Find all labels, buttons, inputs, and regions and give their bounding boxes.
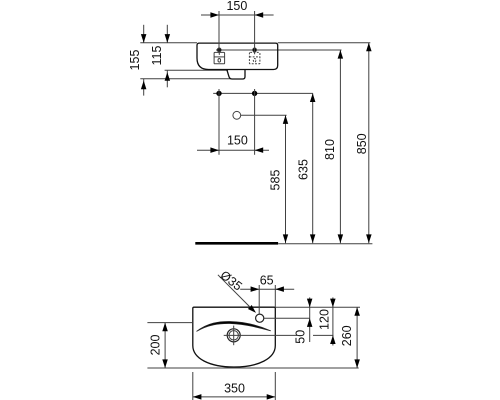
wall fixing dot right [252, 91, 257, 96]
drain outer circle [227, 329, 240, 342]
basin front view outline [193, 307, 275, 367]
basin inner front edge wave [197, 321, 271, 331]
leader arrowhead [248, 305, 256, 313]
wire: wall fixing holes line (635 ref) [213, 92, 313, 94]
dim 810 : line + arrows [339, 50, 341, 243]
drain trap side view [227, 70, 245, 80]
svg-text:115: 115 [150, 45, 164, 65]
dim 585 : line + arrows [285, 115, 287, 243]
dim 200 : line + arrows [164, 323, 166, 368]
extension line from right dot [254, 89, 256, 155]
wire: rim extension line right to 850 dim [278, 42, 371, 44]
svg-text:585: 585 [269, 170, 283, 191]
dim 150 lower : line + arrows [197, 149, 269, 151]
wire: fixing screw height line (810 ref) [216, 49, 342, 51]
siphon outlet circle [233, 111, 241, 119]
dim 155 : line + arrows [143, 25, 145, 43]
svg-text:65: 65 [260, 273, 274, 287]
leader line for tap hole diameter [218, 275, 253, 310]
svg-text:155: 155 [128, 50, 142, 71]
wire: rim extension line left [140, 42, 197, 44]
wire: top edge extension right (120/260/50 ref) [275, 306, 360, 308]
wire: siphon line (585 ref) [241, 114, 287, 116]
drain crosshair vertical [233, 326, 235, 346]
extension line wave top left [147, 322, 192, 324]
dim 635 : line + arrows [312, 93, 314, 243]
extension line basin right edge down [274, 372, 276, 400]
svg-text:810: 810 [323, 139, 337, 160]
fixing bracket left (solid) [214, 52, 225, 63]
svg-text:150: 150 [227, 134, 248, 148]
extension line tap hole up [258, 285, 260, 314]
basin side view outline [197, 43, 278, 69]
floor line thin extension [278, 243, 372, 245]
dim 50 : line + arrows [309, 297, 311, 342]
svg-text:635: 635 [297, 159, 311, 180]
drain center line left (120/50 ref) [224, 334, 297, 336]
fixing bracket right (dashed) [249, 52, 260, 63]
dim 260 : line + arrows [356, 307, 358, 368]
extension line basin left edge down [192, 372, 194, 400]
svg-text:260: 260 [340, 325, 354, 346]
wire: basin underside line (115 ref) [165, 69, 228, 71]
wire: tap hole line right (50 ref) [264, 317, 310, 319]
screw symbol right [253, 48, 257, 52]
extension line left tap down to screw [218, 11, 220, 53]
svg-text:850: 850 [355, 133, 369, 154]
svg-text:120: 120 [318, 309, 332, 330]
svg-text:350: 350 [224, 382, 245, 396]
wire: bottom extension line (200/260 ref) [147, 367, 358, 369]
dim 150 top : line + arrows [201, 14, 274, 16]
floor line thick [195, 242, 278, 245]
dim 65 : line + arrows [240, 288, 294, 290]
svg-text:150: 150 [226, 0, 247, 13]
svg-text:50: 50 [294, 330, 308, 344]
drain inner circle [229, 331, 238, 340]
tap hole circle [256, 314, 264, 322]
extension line from left dot [218, 89, 220, 155]
dim 115 : line + arrows [166, 25, 168, 43]
dim 350 : line + arrows [193, 396, 275, 398]
svg-text:200: 200 [149, 335, 163, 356]
extension line right tap down to screw [254, 11, 256, 53]
dim 850 : line + arrows [368, 43, 370, 244]
svg-text:Ø35: Ø35 [218, 268, 245, 294]
dim 120 : line + arrows [332, 297, 334, 345]
wall fixing dot left [216, 91, 221, 96]
extension line basin right edge up [274, 285, 276, 307]
wire: drain bottom line (155 ref) [140, 78, 231, 80]
screw symbol left [217, 48, 221, 52]
drain center line right segment [313, 334, 334, 336]
